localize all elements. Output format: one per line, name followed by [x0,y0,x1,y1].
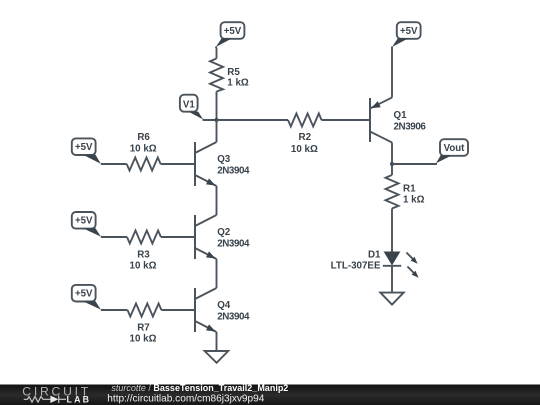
svg-text:R3: R3 [137,250,150,261]
svg-text:Q3: Q3 [217,154,231,165]
svg-text:R6: R6 [137,132,150,143]
wire flag to R6 [101,163,127,165]
ground (below Q4) [205,351,229,363]
net flag Vout [436,139,468,163]
transistor Q3 2N3904 (NPN) [195,142,250,186]
net flag V1 [180,95,203,120]
svg-text:2N3904: 2N3904 [217,239,250,250]
wire Q3 emitter to Q2 collector [216,186,218,215]
resistor R6 [127,132,161,171]
svg-text:1 kΩ: 1 kΩ [227,77,249,88]
svg-text:sturcotte / BasseTension_Trava: sturcotte / BasseTension_Travail2_Manip2 [111,383,288,393]
wire Q1 collector down to Vout node [391,143,393,165]
resistor R2 [288,114,322,155]
footer attribution text [107,383,288,404]
CircuitLab logo symbols (resistor + diode) and LAB [24,395,91,405]
svg-text:Q4: Q4 [217,300,231,311]
wire flag to Q1 emitter [391,47,393,98]
svg-text:10 kΩ: 10 kΩ [130,334,157,345]
svg-text:+5V: +5V [75,289,93,300]
svg-text:10 kΩ: 10 kΩ [130,144,157,155]
wire junction to Vout flag [392,163,437,165]
power flag +5V (R6 input) [72,138,101,163]
wire D1 to ground [391,266,393,293]
svg-text:Vout: Vout [444,143,466,154]
svg-text:LAB: LAB [67,395,92,405]
wire Q2 emitter to Q4 collector [216,259,218,288]
wire R7 to Q4 base [161,309,194,311]
resistor R3 [127,231,161,272]
wire flag to R5 top [215,47,218,59]
svg-text:+5V: +5V [400,26,418,37]
wire R3 to Q2 base [161,236,194,238]
svg-text:R7: R7 [137,323,150,334]
wire node to R1 [391,164,393,175]
power flag +5V (R3 input) [72,212,101,237]
svg-text:2N3906: 2N3906 [394,122,427,133]
svg-text:Q2: Q2 [217,227,231,238]
ground (below D1) [380,293,403,305]
junction node Vout [390,162,394,166]
svg-text:2N3904: 2N3904 [217,312,250,323]
LED D1 LTL-307EE [331,250,419,278]
svg-text:V1: V1 [183,100,195,111]
resistor R7 [128,304,162,345]
svg-text:LTL-307EE: LTL-307EE [331,261,381,272]
wire flag to R7 [101,309,128,311]
resistor R1 [386,175,425,209]
wire V1 flag to junction [203,119,217,121]
wire R5 bottom to node V1 [216,92,218,121]
wire R6 to Q3 base [161,163,194,165]
power flag +5V (top of R5) [216,22,245,47]
wire V1 node to Q3 collector [216,120,218,142]
power flag +5V (R7 input) [72,285,101,310]
svg-text:+5V: +5V [224,26,242,37]
svg-text:1 kΩ: 1 kΩ [403,194,425,205]
svg-text:2N3904: 2N3904 [217,166,250,177]
transistor Q2 2N3904 (NPN) [195,215,250,259]
svg-text:http://circuitlab.com/cm86j3jx: http://circuitlab.com/cm86j3jxv9p94 [107,393,264,404]
wire Q4 emitter to ground [216,332,218,351]
svg-text:+5V: +5V [75,142,93,153]
svg-text:10 kΩ: 10 kΩ [291,144,318,155]
wire R2 to Q1 base [322,119,370,121]
svg-text:10 kΩ: 10 kΩ [130,261,157,272]
transistor Q1 2N3906 (PNP) [370,98,426,143]
junction node V1 [215,118,219,122]
CircuitLab logo wordmark [22,385,91,399]
wire flag to R3 [101,236,127,238]
svg-text:+5V: +5V [75,216,93,227]
svg-text:R5: R5 [227,67,240,78]
svg-text:R2: R2 [299,132,312,143]
power flag +5V (Q1 emitter) [392,22,421,47]
transistor Q4 2N3904 (NPN) [195,288,250,332]
wire junction to R2 [217,119,289,121]
svg-text:Q1: Q1 [394,110,408,121]
footer bar [0,385,540,405]
svg-text:D1: D1 [368,250,381,261]
svg-text:R1: R1 [403,184,416,195]
wire R1 to D1 [391,209,393,252]
resistor R5 [210,59,249,92]
